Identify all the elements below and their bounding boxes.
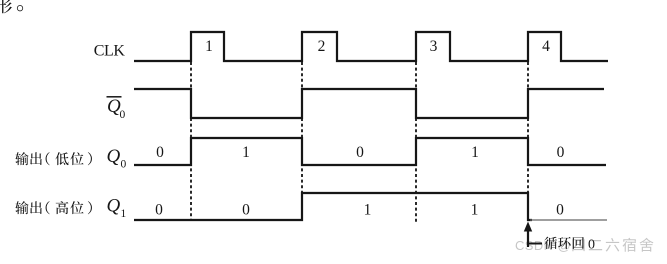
svg-text:2: 2 xyxy=(318,38,326,55)
annotation arrow pointing at Q1 falling edge xyxy=(524,222,542,248)
svg-text:1: 1 xyxy=(364,202,372,219)
svg-text:1: 1 xyxy=(242,144,250,161)
svg-text:3: 3 xyxy=(430,38,438,55)
svg-text:0: 0 xyxy=(242,202,250,219)
Q1 (high bit output) waveform xyxy=(134,193,532,220)
svg-text:CSDN @: CSDN @ xyxy=(515,238,571,253)
Q0-bar waveform xyxy=(134,89,604,118)
svg-text:0: 0 xyxy=(121,159,127,171)
watermark CSDN @四二六宿舍 xyxy=(515,238,653,253)
svg-text:0: 0 xyxy=(557,144,565,161)
svg-text:0: 0 xyxy=(155,202,163,219)
Q1 trailing low line (faint) xyxy=(530,219,607,221)
svg-text:1: 1 xyxy=(121,208,127,220)
Q0 (low bit output) waveform xyxy=(134,138,606,165)
label Q0-bar (overline Q subscript 0) xyxy=(107,96,126,121)
svg-text:CLK: CLK xyxy=(94,43,126,60)
svg-text:0: 0 xyxy=(156,144,164,161)
svg-text:1: 1 xyxy=(471,202,479,219)
ideographic full stop 。 xyxy=(17,5,23,11)
label 输出（低位）Q0 xyxy=(15,146,126,171)
svg-text:1: 1 xyxy=(205,38,213,55)
Q1 bit value labels xyxy=(155,202,564,219)
Q0 bit value labels xyxy=(156,144,565,161)
annotation 循环回 0 xyxy=(544,237,595,253)
dashed clock-edge line t3 xyxy=(415,62,417,224)
CLK waveform xyxy=(134,32,608,61)
svg-text:4: 4 xyxy=(542,38,550,55)
text fragment 形 (clipped at page corner) xyxy=(0,0,12,13)
dashed clock-edge line t4 xyxy=(527,62,529,221)
svg-text:Q: Q xyxy=(107,196,121,217)
dashed clock-edge line t2 xyxy=(301,62,303,221)
svg-text:0: 0 xyxy=(120,109,126,121)
svg-text:0: 0 xyxy=(556,202,564,219)
svg-text:0: 0 xyxy=(588,238,595,253)
svg-text:Q: Q xyxy=(107,146,121,167)
svg-text:1: 1 xyxy=(471,144,479,161)
svg-text:0: 0 xyxy=(356,144,364,161)
label 输出（高位）Q1 xyxy=(15,196,126,221)
CLK pulse numbers 1-4 xyxy=(205,38,550,55)
dashed clock-edge line t1 xyxy=(190,62,192,221)
